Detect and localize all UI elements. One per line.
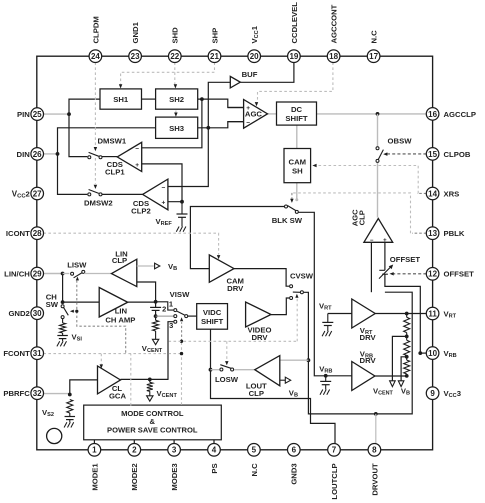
svg-text:28: 28 <box>33 229 42 238</box>
svg-text:FCONT: FCONT <box>3 349 30 358</box>
svg-text:BUF: BUF <box>242 70 258 79</box>
svg-text:PBRFC: PBRFC <box>3 389 30 398</box>
svg-text:14: 14 <box>428 189 437 198</box>
svg-text:−: − <box>370 238 374 244</box>
svg-text:SH3: SH3 <box>169 124 184 133</box>
svg-text:2: 2 <box>132 446 137 455</box>
svg-text:29: 29 <box>33 269 42 278</box>
svg-text:CLP1: CLP1 <box>105 167 125 176</box>
svg-text:CLPDM: CLPDM <box>91 16 100 43</box>
svg-text:5: 5 <box>252 446 257 455</box>
svg-text:9: 9 <box>430 389 435 398</box>
svg-text:ICONT: ICONT <box>6 229 30 238</box>
svg-text:CVSW: CVSW <box>290 272 314 281</box>
svg-text:GCA: GCA <box>109 392 127 401</box>
svg-text:19: 19 <box>289 52 298 61</box>
svg-text:LOSW: LOSW <box>215 375 239 384</box>
svg-text:16: 16 <box>428 110 437 119</box>
svg-text:AGC: AGC <box>245 109 263 118</box>
svg-text:13: 13 <box>428 229 437 238</box>
svg-text:24: 24 <box>91 52 100 61</box>
svg-text:LIN/CH: LIN/CH <box>4 269 30 278</box>
svg-text:DMSW1: DMSW1 <box>97 137 126 146</box>
svg-text:DRV: DRV <box>360 333 377 342</box>
svg-text:DMSW2: DMSW2 <box>84 199 113 208</box>
svg-text:MODE1: MODE1 <box>90 463 99 491</box>
svg-text:SW: SW <box>46 300 59 309</box>
svg-text:AGCCLP: AGCCLP <box>444 110 476 119</box>
svg-text:SHIFT: SHIFT <box>201 317 224 326</box>
svg-text:OFFSET: OFFSET <box>390 255 421 264</box>
svg-text:BLK SW: BLK SW <box>272 216 303 225</box>
svg-text:N.C: N.C <box>250 463 259 477</box>
svg-text:GND1: GND1 <box>131 21 140 43</box>
svg-text:DRV: DRV <box>360 356 377 365</box>
svg-text:SH2: SH2 <box>169 95 184 104</box>
svg-text:MODE2: MODE2 <box>130 463 139 490</box>
svg-text:3: 3 <box>169 321 173 330</box>
svg-text:SH: SH <box>292 166 303 175</box>
svg-text:POWER SAVE CONTROL: POWER SAVE CONTROL <box>107 425 198 434</box>
svg-text:XRS: XRS <box>444 189 460 198</box>
svg-text:OBSW: OBSW <box>388 136 413 145</box>
svg-text:SH1: SH1 <box>113 95 129 104</box>
svg-text:26: 26 <box>33 150 42 159</box>
svg-text:MODE3: MODE3 <box>170 463 179 490</box>
svg-text:VIDC: VIDC <box>203 308 222 317</box>
svg-text:DC: DC <box>291 105 303 114</box>
svg-text:CH AMP: CH AMP <box>105 316 135 325</box>
svg-text:−: − <box>246 120 250 127</box>
svg-text:+: + <box>135 162 139 169</box>
svg-text:CLPOB: CLPOB <box>444 150 471 159</box>
svg-text:17: 17 <box>369 52 378 61</box>
svg-text:CLP: CLP <box>358 210 367 225</box>
svg-text:1: 1 <box>92 446 97 455</box>
svg-text:25: 25 <box>33 110 42 119</box>
svg-text:PS: PS <box>210 463 219 473</box>
svg-text:DIN: DIN <box>17 150 31 159</box>
svg-text:10: 10 <box>428 349 437 358</box>
svg-text:11: 11 <box>428 309 437 318</box>
svg-text:DRVOUT: DRVOUT <box>370 463 379 496</box>
svg-text:CCDLEVEL: CCDLEVEL <box>290 2 299 44</box>
svg-text:LISW: LISW <box>67 260 87 269</box>
svg-text:N.C: N.C <box>370 30 379 44</box>
svg-text:PIN: PIN <box>17 110 30 119</box>
svg-text:−: − <box>162 184 166 191</box>
svg-text:27: 27 <box>33 189 42 198</box>
svg-text:LIN: LIN <box>115 306 128 315</box>
svg-text:32: 32 <box>33 389 42 398</box>
svg-text:CLP: CLP <box>112 256 127 265</box>
svg-text:OFFSET: OFFSET <box>444 270 475 279</box>
svg-text:22: 22 <box>170 52 179 61</box>
svg-text:31: 31 <box>33 349 42 358</box>
svg-text:SHP: SHP <box>210 28 219 44</box>
svg-text:6: 6 <box>292 446 297 455</box>
svg-text:PBLK: PBLK <box>444 229 465 238</box>
svg-text:GND3: GND3 <box>290 463 299 484</box>
svg-text:SHD: SHD <box>171 27 180 44</box>
svg-text:VISW: VISW <box>170 290 190 299</box>
svg-text:7: 7 <box>332 446 337 455</box>
svg-text:23: 23 <box>131 52 140 61</box>
svg-text:CLP2: CLP2 <box>131 207 151 216</box>
svg-text:2: 2 <box>162 305 166 314</box>
svg-text:+: + <box>383 238 387 244</box>
svg-text:12: 12 <box>428 270 437 279</box>
svg-text:CLP: CLP <box>249 389 264 398</box>
svg-text:15: 15 <box>428 150 437 159</box>
svg-text:GND2: GND2 <box>8 309 29 318</box>
svg-text:4: 4 <box>212 446 217 455</box>
svg-text:LOUTCLP: LOUTCLP <box>330 463 339 499</box>
svg-text:−: − <box>135 146 139 153</box>
svg-text:8: 8 <box>372 446 377 455</box>
svg-text:AGCCONT: AGCCONT <box>330 4 339 43</box>
svg-text:30: 30 <box>33 309 42 318</box>
svg-text:3: 3 <box>172 446 177 455</box>
svg-text:21: 21 <box>210 52 219 61</box>
svg-text:1: 1 <box>169 299 173 308</box>
svg-text:SHIFT: SHIFT <box>285 114 308 123</box>
svg-text:DRV: DRV <box>227 284 244 293</box>
svg-text:18: 18 <box>329 52 338 61</box>
svg-text:CAM: CAM <box>289 157 307 166</box>
svg-text:+: + <box>162 200 166 207</box>
svg-text:20: 20 <box>250 52 259 61</box>
